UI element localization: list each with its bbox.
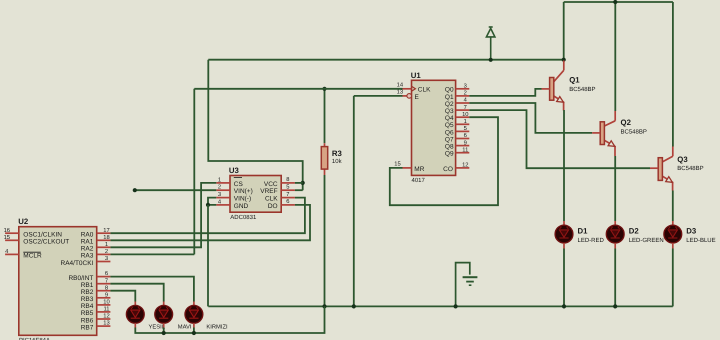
Q2 base lead — [592, 132, 600, 134]
resistor R3 — [321, 143, 327, 175]
wire CLK net horizontal — [194, 88, 402, 90]
U2 MCLR overline — [23, 251, 41, 253]
wire U3 GND to ground rail — [207, 205, 209, 307]
svg-text:1: 1 — [105, 242, 108, 248]
junction Q2 column / top wire — [613, 0, 617, 4]
U1 pin 1 (Q5) stub — [456, 123, 470, 125]
svg-text:VIN(-): VIN(-) — [234, 196, 251, 203]
svg-text:MAVI: MAVI — [178, 325, 192, 331]
wire emitter to D2 — [614, 156, 616, 221]
svg-text:RB7: RB7 — [81, 324, 94, 331]
svg-text:10: 10 — [103, 299, 109, 306]
svg-text:U1: U1 — [411, 71, 422, 80]
wire KIRMIZI cathode drop — [193, 328, 195, 334]
U3 pin 2 (VIN(+)) stub — [216, 189, 230, 191]
svg-text:LED-RED: LED-RED — [578, 237, 605, 244]
svg-text:RA3: RA3 — [81, 253, 94, 260]
U1 pin 9 (Q8) stub — [456, 145, 470, 147]
wire RB1 to MAVI LED — [110, 284, 163, 302]
wire E pin horizontal — [354, 95, 403, 97]
U2 pin 8 (RB2) stub — [97, 290, 111, 292]
U1 pin 14 (CLK) stub — [403, 88, 412, 90]
U2 pin 1 (RA2) stub — [97, 246, 111, 248]
wire D3 cathode to ground rail — [672, 249, 674, 307]
svg-text:R3: R3 — [332, 149, 343, 158]
svg-text:Q0: Q0 — [445, 87, 454, 94]
svg-text:CS: CS — [234, 181, 244, 188]
svg-text:MCLR: MCLR — [23, 253, 42, 260]
svg-text:10k: 10k — [332, 158, 343, 165]
svg-text:12: 12 — [462, 162, 468, 169]
svg-text:2: 2 — [218, 184, 221, 191]
U3 pin 1 (CS) stub — [216, 182, 230, 184]
svg-text:3: 3 — [105, 255, 108, 262]
U3 pin 4 (GND) stub — [216, 204, 230, 206]
Q1 base lead — [542, 88, 550, 90]
LED indicator (YESIL) anode lead — [134, 302, 136, 306]
svg-text:1: 1 — [218, 177, 221, 183]
svg-text:Q8: Q8 — [445, 144, 454, 151]
LED indicator (KIRMIZI) — [185, 305, 203, 323]
U1 pin 12 (CO) stub — [456, 167, 470, 169]
svg-text:CO: CO — [443, 166, 453, 173]
svg-text:CLK: CLK — [265, 196, 278, 203]
U3 pin 3 (VIN(-)) stub — [216, 197, 230, 199]
D1 cathode lead — [563, 243, 565, 249]
svg-text:10: 10 — [462, 111, 468, 118]
U2 pin 4 (MCLR) stub — [5, 253, 19, 255]
wire +V rail — [208, 59, 563, 61]
svg-text:5: 5 — [464, 126, 467, 132]
junction ground symbol / ground rail — [454, 304, 458, 308]
U2 pin 7 (RB1) stub — [97, 283, 111, 285]
junction D2 / ground rail — [613, 304, 617, 308]
LED indicator (YESIL) — [126, 305, 144, 323]
power terminal +V — [486, 27, 495, 60]
svg-text:RA1: RA1 — [81, 239, 94, 246]
wire +V rail to U3 VCC/VREF — [208, 60, 302, 191]
svg-text:Q1: Q1 — [445, 94, 454, 101]
svg-text:6: 6 — [105, 270, 108, 277]
wire U3 CLK to RA0 — [110, 198, 305, 234]
svg-text:D3: D3 — [686, 227, 697, 236]
U1 pin 7 (Q3) stub — [456, 109, 470, 111]
svg-text:RB2: RB2 — [81, 289, 94, 296]
svg-text:BC548BP: BC548BP — [569, 86, 595, 93]
svg-text:DO: DO — [268, 203, 278, 210]
ground symbol — [456, 263, 478, 307]
svg-text:E: E — [415, 94, 420, 101]
junction +V rail / Q1 column — [562, 58, 566, 62]
wire indicator LED cathodes to ground rail — [135, 306, 324, 333]
wire U1 Q2 output to Q2 base — [469, 103, 592, 133]
U1 pin 2 (Q1) stub — [456, 95, 470, 97]
svg-text:Q1: Q1 — [569, 76, 580, 85]
wire U1 Q3 output to Q3 base — [469, 110, 650, 168]
svg-text:6: 6 — [286, 198, 289, 205]
LED D2 (LED-GREEN) — [606, 225, 624, 243]
svg-text:11: 11 — [103, 307, 109, 313]
U2 pin 11 (RB5) stub — [97, 311, 111, 313]
svg-text:11: 11 — [462, 147, 468, 153]
D3 cathode lead — [672, 243, 674, 249]
junction R3 column / ground rail — [322, 304, 326, 308]
Q3 base lead — [650, 167, 658, 169]
LED D3 (LED-BLUE) — [664, 225, 682, 243]
svg-text:RB4: RB4 — [81, 303, 94, 310]
U1 pin 6 (Q7) stub — [456, 138, 470, 140]
LED indicator (MAVI) anode lead — [163, 302, 165, 306]
svg-text:VREF: VREF — [260, 188, 277, 195]
wire E pin to ground column — [353, 96, 355, 307]
wire U3 VIN(+) — [135, 189, 217, 191]
D1 anode lead — [563, 221, 565, 225]
U1 pin 3 (Q0) stub — [456, 88, 470, 90]
U2 pin 16 (OSC1/CLKIN) stub — [5, 232, 19, 234]
U2 pin 6 (RB0/INT) stub — [97, 276, 111, 278]
U2 pin 12 (RB6) stub — [97, 318, 111, 320]
wire U3 CS to RA2 — [110, 183, 216, 247]
wire D2 cathode to ground rail — [614, 249, 616, 307]
U1 pin 13 (E) stub and inversion bubble — [403, 95, 407, 97]
wire U3 VCC to +V column — [295, 182, 303, 184]
svg-text:RA4/T0CKI: RA4/T0CKI — [61, 260, 94, 267]
svg-text:BC548BP: BC548BP — [677, 165, 703, 172]
svg-text:7: 7 — [105, 278, 108, 284]
svg-text:Q5: Q5 — [445, 122, 454, 129]
svg-text:RB1: RB1 — [81, 282, 94, 289]
U2 pin 17 (RA0) stub — [97, 232, 111, 234]
U3 pin 6 (DO) stub — [281, 204, 295, 206]
svg-text:U3: U3 — [229, 166, 240, 175]
junction MAVI cathode / bottom wire — [162, 331, 166, 335]
svg-text:CLK: CLK — [418, 87, 431, 94]
svg-text:8: 8 — [105, 284, 108, 291]
svg-text:15: 15 — [4, 235, 10, 241]
svg-text:RA2: RA2 — [81, 246, 94, 253]
svg-text:3: 3 — [218, 191, 221, 198]
svg-text:13: 13 — [397, 89, 403, 96]
svg-text:1: 1 — [464, 119, 467, 125]
D2 cathode lead — [614, 243, 616, 249]
wire +V top horizontal — [564, 1, 673, 3]
U2 pin 10 (RB4) stub — [97, 304, 111, 306]
svg-text:OSC1/CLKIN: OSC1/CLKIN — [23, 232, 62, 239]
LED indicator (YESIL) cathode lead — [134, 323, 136, 327]
svg-text:VCC: VCC — [264, 181, 278, 188]
svg-text:9: 9 — [105, 291, 108, 298]
svg-text:VIN(+): VIN(+) — [234, 188, 253, 195]
U2 pin 2 (RA3) stub — [97, 253, 111, 255]
wire emitter to D3 — [672, 191, 674, 222]
svg-text:Q4: Q4 — [445, 115, 454, 122]
transistor Q3 (BC548BP) — [658, 147, 673, 191]
wire R3 top to CLK net — [324, 89, 326, 143]
svg-text:Q6: Q6 — [445, 129, 454, 136]
IC U1 body (4017) — [412, 80, 456, 175]
junction D1 / ground rail — [562, 304, 566, 308]
svg-text:Q3: Q3 — [677, 155, 688, 164]
wire U3 DO to RA1 — [110, 205, 310, 240]
junction power terminal / +V rail — [489, 58, 493, 62]
wire U1 Q1 output to Q1 base — [469, 89, 541, 96]
wire RB0 to KIRMIZI LED — [110, 277, 193, 302]
LED indicator (MAVI) — [155, 305, 173, 323]
svg-text:LED-BLUE: LED-BLUE — [686, 237, 715, 244]
wire MR to Q4 loop — [390, 117, 498, 205]
wire RA3 row to CLK column — [110, 253, 194, 255]
transistor Q1 (BC548BP) — [550, 61, 564, 111]
svg-text:MR: MR — [414, 166, 424, 173]
wire RB2 to YESIL LED — [110, 291, 135, 302]
U1 pin 5 (Q6) stub — [456, 130, 470, 132]
LED indicator (KIRMIZI) cathode lead — [193, 323, 195, 327]
wire MAVI cathode drop — [163, 328, 165, 334]
svg-text:RB5: RB5 — [81, 310, 94, 317]
wire emitter to D1 — [563, 110, 565, 221]
LED D1 (LED-RED) — [555, 225, 573, 243]
U2 pin 15 (OSC2/CLKOUT) stub — [5, 239, 19, 241]
svg-text:2: 2 — [105, 248, 108, 255]
wire D1 cathode to ground rail — [563, 249, 565, 307]
svg-text:7: 7 — [464, 105, 467, 111]
svg-text:5: 5 — [286, 185, 289, 191]
svg-text:Q9: Q9 — [445, 151, 454, 158]
IC U3 body (ADC0831) — [230, 176, 281, 213]
svg-text:RB0/INT: RB0/INT — [68, 275, 93, 282]
IC U2 body (PIC16F84A) — [19, 227, 97, 336]
wire +V to Q3 collector column — [672, 2, 674, 147]
svg-text:RA0: RA0 — [81, 232, 94, 239]
wire R3 bottom to ground rail — [324, 175, 326, 306]
svg-text:18: 18 — [103, 234, 109, 241]
svg-text:Q7: Q7 — [445, 136, 454, 143]
LED indicator (MAVI) cathode lead — [163, 323, 165, 327]
svg-text:Q2: Q2 — [621, 118, 632, 127]
wire ground rail — [208, 305, 673, 307]
wire U3 VIN(-) to GND — [208, 198, 216, 205]
svg-text:14: 14 — [397, 83, 404, 89]
U1 CLK clock chevron — [412, 86, 416, 91]
junction KIRMIZI cathode / bottom wire — [192, 331, 196, 335]
U1 pin 4 (Q2) stub — [456, 102, 470, 104]
svg-text:9: 9 — [464, 139, 467, 146]
svg-text:4017: 4017 — [412, 177, 426, 184]
U3 pin 8 (VCC) stub — [281, 182, 295, 184]
svg-text:15: 15 — [394, 162, 400, 168]
svg-text:U2: U2 — [18, 217, 29, 226]
U2 pin 9 (RB3) stub — [97, 297, 111, 299]
svg-text:LED-GREEN: LED-GREEN — [629, 237, 664, 244]
svg-text:KIRMIZI: KIRMIZI — [206, 325, 228, 331]
svg-text:8: 8 — [286, 176, 289, 183]
U2 pin 3 (RA4/T0CKI) stub — [97, 261, 111, 263]
D3 anode lead — [672, 221, 674, 225]
U3 pin 5 (VREF) stub — [281, 189, 295, 191]
svg-text:17: 17 — [103, 228, 109, 234]
svg-text:RB6: RB6 — [81, 317, 94, 324]
U1 pin 10 (Q4) stub — [456, 116, 470, 118]
junction VIN(-) / GND — [206, 203, 210, 207]
svg-text:RB3: RB3 — [81, 296, 94, 303]
svg-text:D1: D1 — [578, 227, 589, 236]
U2 pin 18 (RA1) stub — [97, 239, 111, 241]
svg-text:2: 2 — [464, 90, 467, 97]
U3 pin 7 (CLK) stub — [281, 197, 295, 199]
wire +V to Q2 collector column — [614, 2, 616, 111]
svg-text:3: 3 — [464, 83, 467, 90]
svg-text:Q3: Q3 — [445, 108, 454, 115]
svg-text:Q2: Q2 — [445, 101, 454, 108]
svg-text:12: 12 — [103, 313, 109, 320]
svg-text:7: 7 — [286, 192, 289, 198]
junction R3 / CLK net — [322, 87, 326, 91]
svg-text:13: 13 — [103, 320, 109, 327]
junction E column / ground rail — [352, 304, 356, 308]
wire CLK net to RA3 column — [193, 89, 195, 255]
svg-text:GND: GND — [234, 203, 249, 210]
svg-text:ADC0831: ADC0831 — [230, 214, 257, 221]
U3 CS overline — [234, 177, 242, 179]
U2 pin 13 (RB7) stub — [97, 325, 111, 327]
U1 pin 15 (MR) stub — [403, 167, 412, 169]
wire U3 VREF to +V column — [295, 189, 303, 191]
svg-text:OSC2/CLKOUT: OSC2/CLKOUT — [23, 239, 69, 246]
U1 pin 11 (Q9) stub — [456, 152, 470, 154]
svg-text:D2: D2 — [629, 227, 640, 236]
wire +V to Q1 collector column — [563, 2, 565, 61]
junction U3 VCC / VREF column — [301, 181, 305, 185]
svg-text:16: 16 — [4, 227, 10, 234]
svg-text:BC548BP: BC548BP — [621, 128, 647, 135]
svg-text:6: 6 — [464, 132, 467, 139]
junction VIN(+) node — [133, 188, 137, 192]
LED indicator (KIRMIZI) anode lead — [193, 302, 195, 306]
transistor Q2 (BC548BP) — [600, 111, 615, 156]
D2 anode lead — [614, 221, 616, 225]
